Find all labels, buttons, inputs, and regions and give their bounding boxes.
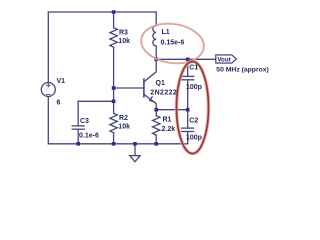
svg-text:R3: R3 xyxy=(119,30,128,37)
svg-text:100p: 100p xyxy=(186,84,202,91)
svg-text:C1: C1 xyxy=(189,65,198,72)
svg-text:C2: C2 xyxy=(189,118,198,125)
svg-text:R2: R2 xyxy=(119,115,128,122)
svg-text:2N2222: 2N2222 xyxy=(150,89,177,96)
svg-text:10k: 10k xyxy=(118,124,130,131)
svg-text:0.15e-6: 0.15e-6 xyxy=(161,40,185,47)
svg-text:Vout: Vout xyxy=(217,56,230,63)
svg-text:V1: V1 xyxy=(57,78,66,85)
svg-text:C3: C3 xyxy=(80,118,89,125)
svg-text:50 MHz (approx): 50 MHz (approx) xyxy=(216,67,268,74)
svg-text:2.2k: 2.2k xyxy=(162,126,176,133)
svg-text:Q1: Q1 xyxy=(156,80,165,87)
svg-text:100p: 100p xyxy=(186,135,202,142)
svg-text:L1: L1 xyxy=(162,29,170,36)
svg-text:R1: R1 xyxy=(163,117,172,124)
svg-text:6: 6 xyxy=(57,100,61,107)
svg-text:0.1e-6: 0.1e-6 xyxy=(79,133,99,140)
svg-text:10k: 10k xyxy=(118,38,130,45)
